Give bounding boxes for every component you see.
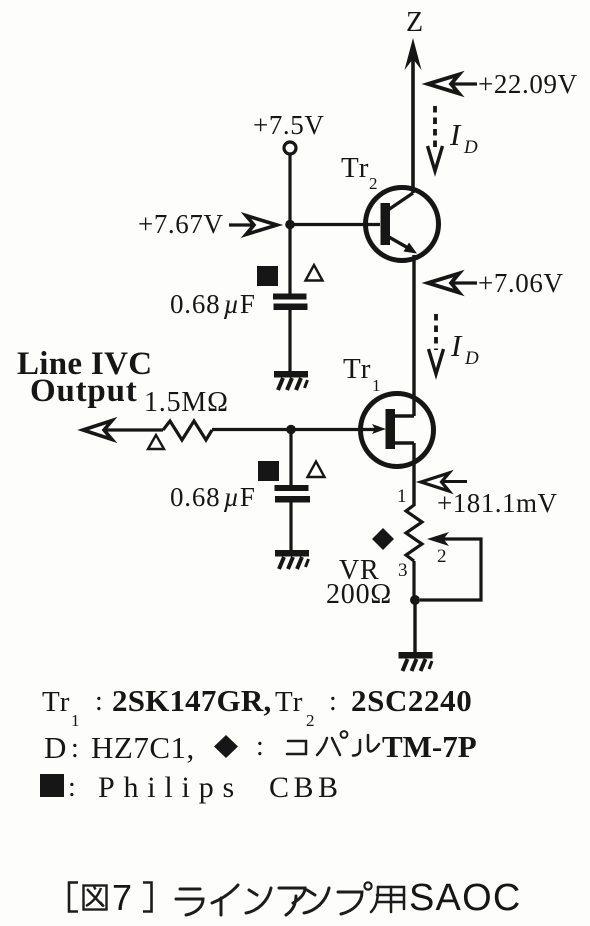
caption katakana pu — [338, 882, 372, 914]
svg-text:+7.06V: +7.06V — [478, 268, 564, 298]
wire resistor to gate node — [212, 428, 291, 431]
label ID1 — [449, 117, 478, 158]
svg-text:1: 1 — [372, 376, 381, 395]
svg-text:Tr: Tr — [42, 686, 70, 718]
node gate junction — [286, 425, 296, 435]
potentiometer VR 200ohm — [406, 505, 422, 561]
label ID2 — [450, 328, 479, 369]
wire node to ground — [413, 600, 416, 652]
marker triangle 2 — [308, 462, 325, 478]
caption kanji you — [371, 887, 404, 912]
voltage arrow +22.09V — [428, 75, 477, 94]
capacitor C2 0.68uF — [275, 485, 311, 503]
voltage arrow +7.67V — [229, 216, 277, 235]
current arrow ID2 dashed — [429, 314, 444, 374]
caption bracket close — [143, 883, 152, 912]
svg-text:Philips: Philips — [98, 771, 243, 804]
wire Tr1 source down — [412, 443, 415, 506]
wire gate — [291, 428, 376, 431]
svg-text:SAOC: SAOC — [409, 877, 522, 919]
legend line 2 — [44, 729, 477, 765]
legend line 1 — [42, 683, 472, 730]
svg-text:CBB: CBB — [269, 771, 343, 804]
svg-text:Tr: Tr — [343, 353, 371, 385]
caption kanji zu — [84, 886, 107, 910]
caption katakana i — [212, 885, 238, 915]
marker triangle 1 — [306, 265, 323, 281]
svg-text:2SK147GR,: 2SK147GR, — [112, 683, 271, 718]
svg-text:2: 2 — [369, 174, 378, 193]
svg-text:2: 2 — [306, 711, 315, 730]
svg-text:1: 1 — [71, 711, 80, 730]
marker square film cap 2 — [258, 461, 279, 481]
svg-text::: : — [68, 772, 76, 803]
svg-text:+181.1mV: +181.1mV — [437, 488, 557, 518]
caption katakana ra — [176, 889, 203, 915]
svg-text::: : — [256, 731, 264, 762]
svg-text:0.68µF: 0.68µF — [170, 482, 256, 512]
svg-text:1: 1 — [397, 486, 407, 507]
node base junction — [285, 220, 295, 230]
svg-text:1.5MΩ: 1.5MΩ — [144, 387, 229, 418]
svg-text:2SC2240: 2SC2240 — [351, 683, 472, 718]
legend katakana ko-pa-ru — [287, 731, 379, 755]
wire C1 to ground — [288, 310, 291, 371]
wiper arrow VR — [420, 532, 481, 600]
marker square film cap 1 — [257, 266, 278, 286]
svg-text:0.68µF: 0.68µF — [170, 289, 256, 319]
svg-text:Tr: Tr — [341, 152, 369, 184]
transistor Tr1 label — [343, 353, 381, 395]
svg-text:200Ω: 200Ω — [326, 579, 392, 610]
svg-text:D: D — [464, 348, 479, 369]
svg-text:Tr: Tr — [275, 686, 303, 718]
svg-text:TM-7P: TM-7P — [382, 729, 477, 764]
svg-text:HZ7C1,: HZ7C1, — [91, 730, 195, 765]
caption katakana a — [279, 888, 305, 915]
caption katakana n — [246, 888, 271, 913]
terminal +7.5V — [284, 142, 296, 154]
ground 2 — [275, 550, 309, 569]
wire node to C2 — [289, 430, 292, 485]
svg-text::: : — [95, 686, 103, 717]
node pot bottom — [410, 595, 420, 605]
caption katakana n 2 — [304, 888, 329, 913]
svg-text:+7.5V: +7.5V — [253, 110, 324, 140]
wire +7.5V down — [288, 154, 291, 294]
ground 1 — [274, 371, 308, 390]
voltage arrow +7.06V — [428, 274, 477, 293]
current arrow ID1 dashed — [428, 106, 443, 171]
svg-text:+22.09V: +22.09V — [478, 69, 578, 99]
wire Tr2 emitter to Tr1 drain — [412, 255, 415, 416]
ground 3 — [399, 652, 433, 671]
svg-text:D: D — [463, 137, 478, 158]
svg-text:7: 7 — [112, 877, 132, 918]
svg-text:+7.67V: +7.67V — [138, 209, 224, 239]
legend line 3 — [40, 771, 343, 804]
marker triangle 3 — [148, 435, 164, 449]
svg-text::: : — [329, 686, 337, 717]
svg-text:I: I — [450, 328, 463, 363]
transistor FET Tr1 — [361, 394, 434, 467]
wire base — [290, 223, 380, 226]
wire pot to node — [412, 561, 415, 600]
capacitor C1 0.68uF — [273, 294, 308, 311]
wire C2 to ground — [289, 502, 292, 550]
svg-text:Z: Z — [406, 7, 423, 38]
svg-text:I: I — [449, 117, 462, 152]
resistor R1 1.5Mohm — [163, 421, 212, 440]
svg-text:Output: Output — [30, 373, 138, 409]
label Line IVC Output — [17, 346, 152, 409]
svg-text:2: 2 — [437, 546, 447, 567]
wire Z arrow up — [405, 38, 422, 193]
voltage arrow +181.1mV — [421, 473, 467, 491]
transistor Tr2 label — [341, 152, 378, 193]
output arrow — [83, 421, 163, 440]
svg-text:D: D — [44, 730, 66, 765]
svg-text:3: 3 — [398, 560, 408, 581]
marker diamond VR — [372, 528, 394, 550]
svg-text::: : — [71, 733, 79, 764]
transistor Q Tr2 — [366, 188, 439, 261]
caption bracket open — [69, 883, 78, 912]
